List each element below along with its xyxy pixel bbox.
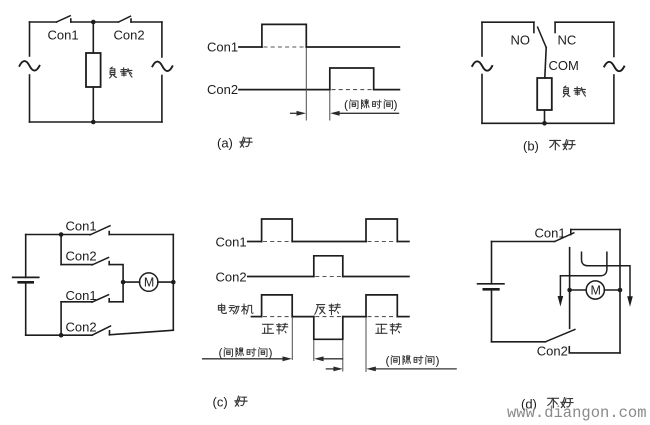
arrowhead left dim1 — [314, 356, 324, 361]
wire COM to resistor — [545, 48, 546, 79]
extension line at Con1 fall — [305, 48, 307, 121]
text 不好 not-good (b) — [550, 140, 561, 150]
wire center branch lower — [92, 87, 94, 122]
Con1 baseline right — [306, 46, 399, 48]
dashed baseline under Con1 pulse1 — [263, 241, 292, 243]
switch Con2 lever — [119, 16, 131, 22]
wire top — [492, 241, 555, 243]
svg-text:COM: COM — [549, 58, 579, 73]
wire row2 left — [61, 264, 92, 266]
node motor right — [171, 280, 176, 285]
wire right vertical — [172, 235, 174, 331]
motor baseline seg3 — [343, 316, 366, 318]
wire row3 right — [109, 301, 123, 303]
Con1 trace baseline left — [239, 46, 262, 48]
AC source left — [472, 61, 492, 70]
switch Con2 bottom lever — [92, 326, 111, 335]
motor pulse up 1 — [262, 295, 293, 317]
wire top right segment — [131, 21, 162, 23]
switch Con1 top tick — [108, 232, 110, 235]
text 间隙时间 gap-time (a) — [350, 100, 358, 109]
dashed baseline under Con2 pulse — [332, 89, 374, 91]
motor trace baseline seg1 — [252, 316, 262, 318]
node row1 left — [59, 232, 64, 237]
svg-text:(: ( — [344, 98, 348, 112]
svg-text:(c): (c) — [213, 394, 228, 409]
switch Con2 fixed contact bracket — [569, 347, 620, 353]
switch Con1 top lever — [90, 226, 110, 235]
NC terminal tick — [554, 22, 556, 32]
extension line at Con2 rise — [329, 90, 331, 120]
dashed motor baseline under pulse2 — [368, 316, 398, 318]
wire row3 left stub down — [60, 302, 62, 335]
svg-text:): ) — [394, 98, 398, 112]
text 好 good (a) — [240, 137, 252, 147]
svg-text:): ) — [436, 353, 440, 367]
AC source left — [20, 61, 40, 70]
wire motor node to motor — [123, 281, 139, 283]
wire right vertical — [619, 230, 621, 353]
text 正转 forward 2 (c) — [376, 324, 387, 333]
svg-text:Con1: Con1 — [66, 219, 97, 234]
switch Con1 lever — [555, 233, 574, 242]
text 不好 not-good (d) — [548, 398, 559, 408]
wire row2 right to corner — [109, 265, 123, 283]
wire row3 left — [61, 301, 92, 303]
arrowhead right dim1 — [283, 356, 293, 361]
motor M circle — [140, 273, 158, 291]
wire bottom — [492, 341, 546, 343]
switch Con2 row2 tick — [108, 262, 110, 265]
resistor 负载 (load) — [537, 78, 552, 110]
Con2 trace baseline left — [239, 89, 330, 91]
arrowhead left dim2 — [366, 367, 376, 372]
dimension 2 line left — [326, 368, 335, 370]
battery short plate — [484, 288, 499, 291]
switch lever NO-COM — [538, 27, 547, 47]
wire left vertical upper — [29, 22, 31, 56]
wire right vertical lower — [161, 76, 163, 123]
Con2 baseline right — [374, 89, 400, 91]
wire left vertical lower — [29, 75, 31, 122]
svg-text:Con2: Con2 — [66, 320, 97, 335]
wire bottom — [482, 122, 614, 124]
extension line at reverse end — [342, 340, 344, 372]
wire top row left — [26, 234, 91, 236]
wire resistor to bottom — [544, 110, 546, 123]
wire top left to NO — [482, 21, 534, 23]
Con2 trace baseline left — [248, 276, 314, 278]
wire bottom diagonal to right — [110, 330, 174, 335]
text 电动机 motor (c) — [218, 304, 226, 314]
wire center branch upper — [92, 22, 94, 53]
svg-text:): ) — [269, 346, 273, 360]
wire top NC to right — [555, 21, 614, 23]
extension line at pulse2 rise — [365, 317, 367, 372]
resistor 负载 (load) — [86, 53, 101, 87]
svg-text:M: M — [144, 276, 154, 290]
dashed baseline under Con2 pulse — [315, 276, 342, 278]
wire left vertical lower — [491, 289, 493, 342]
wire left vertical lower — [481, 75, 483, 124]
wire right vertical upper — [161, 22, 163, 57]
wire left vertical upper — [481, 22, 483, 56]
node motor right — [618, 288, 623, 293]
node bottom center — [91, 120, 96, 125]
AC source right — [604, 62, 624, 71]
wire motor left — [570, 289, 587, 291]
switch Con2 row2 lever — [92, 258, 108, 265]
wire left vertical upper — [25, 235, 27, 278]
svg-text:Con2: Con2 — [114, 28, 145, 43]
Con1 trace baseline left — [248, 241, 262, 243]
wire bottom — [30, 121, 162, 123]
wire top left segment — [30, 21, 57, 23]
current path hook left — [560, 252, 607, 297]
arrowhead right at Con1 fall — [297, 111, 307, 116]
svg-text:Con1: Con1 — [207, 40, 238, 55]
extension line at motor fall 1 — [291, 317, 293, 360]
motor baseline seg2 — [292, 316, 314, 318]
arrowhead left at Con2 rise — [330, 111, 340, 116]
AC source right — [152, 62, 172, 71]
Con2 pulse — [330, 68, 374, 90]
dashed motor baseline over reverse pulse — [315, 316, 342, 318]
wire top right segment — [571, 229, 620, 231]
dimension line right of gap — [339, 112, 399, 114]
switch Con2 fixed contact tick — [130, 19, 132, 22]
svg-text:M: M — [591, 284, 601, 298]
Con1 pulse 1 — [262, 219, 293, 242]
text 间隙时间 gap-time (c2) — [391, 355, 399, 364]
switch Con2 lever — [545, 330, 575, 342]
Con2 baseline right — [343, 276, 409, 278]
svg-text:NC: NC — [558, 33, 577, 48]
Con1 pulse 2 — [366, 219, 397, 242]
wire riser above motor-left node — [569, 248, 571, 290]
Con1 baseline right — [397, 241, 409, 243]
wire top middle segment — [71, 21, 119, 23]
wire bottom left — [26, 334, 92, 336]
battery long plate — [13, 276, 39, 278]
svg-text:NO: NO — [511, 33, 531, 48]
wire row3 corner to motor node — [122, 282, 124, 302]
dashed baseline under Con1 pulse2 — [368, 241, 398, 243]
switch Con1 fixed contact tick — [570, 230, 572, 235]
dimension 2 line right — [375, 368, 457, 370]
wire riser below motor-left node — [569, 290, 571, 328]
svg-text:www.diangon.com: www.diangon.com — [507, 404, 647, 422]
wire right vertical upper — [613, 22, 615, 56]
switch Con1 row3 lever — [92, 295, 108, 302]
text 负载 load (a) — [110, 67, 117, 78]
wire motor right — [604, 289, 620, 291]
arrowhead down left — [558, 296, 564, 307]
svg-text:(b): (b) — [523, 139, 539, 154]
wire stub row1 to row2 — [60, 235, 62, 265]
svg-text:Con1: Con1 — [535, 226, 566, 241]
dimension 1 line right — [323, 358, 343, 360]
svg-text:Con1: Con1 — [48, 28, 79, 43]
node bottom center — [542, 121, 547, 126]
node bottom left — [59, 333, 64, 338]
text 反转 reverse (c) — [315, 305, 325, 315]
text 好 good (c) — [235, 396, 247, 406]
Con1 baseline middle — [292, 241, 366, 243]
battery short plate — [19, 281, 33, 284]
svg-text:(: ( — [219, 346, 223, 360]
svg-text:Con1: Con1 — [216, 234, 247, 249]
motor baseline seg4 — [397, 316, 409, 318]
NO terminal tick — [533, 22, 535, 32]
svg-text:Con2: Con2 — [207, 82, 238, 97]
dashed motor baseline under pulse1 — [263, 316, 292, 318]
wire motor to right node — [158, 281, 173, 283]
Con1 pulse — [262, 24, 306, 47]
arrowhead down right — [627, 296, 633, 307]
svg-text:Con2: Con2 — [537, 344, 568, 359]
node motor left — [567, 288, 572, 293]
Con2 pulse — [314, 256, 343, 277]
switch Con2 bottom tick — [109, 331, 111, 335]
wire left vertical lower — [25, 282, 27, 335]
dimension 1 line left — [202, 358, 283, 360]
motor pulse up 2 — [366, 295, 397, 317]
switch Con1 lever — [56, 16, 70, 22]
node top center — [91, 20, 96, 25]
svg-text:Con2: Con2 — [216, 269, 247, 284]
text 正转 forward 1 (c) — [262, 324, 273, 333]
dashed baseline under Con1 pulse — [264, 46, 307, 48]
svg-text:Con1: Con1 — [66, 288, 97, 303]
motor pulse down (reverse) — [314, 317, 343, 340]
switch Con1 row3 tick — [108, 299, 110, 302]
arrowhead right dim2 — [333, 367, 343, 372]
extension line at reverse start — [313, 340, 315, 361]
svg-text:(a): (a) — [217, 136, 233, 151]
svg-text:Con2: Con2 — [66, 249, 97, 264]
text 间隙时间 gap-time (c1) — [224, 348, 232, 357]
wire left vertical upper — [491, 242, 493, 284]
wire right vertical lower — [613, 75, 615, 123]
wire top row right — [109, 234, 173, 236]
battery long plate — [478, 283, 504, 285]
node motor left — [121, 280, 126, 285]
dimension line left of gap — [290, 112, 297, 114]
switch Con1 fixed contact tick — [70, 19, 72, 22]
svg-text:(: ( — [386, 353, 390, 367]
motor M circle — [586, 281, 604, 299]
current path hook right — [582, 252, 631, 297]
text 负载 load (b) — [563, 86, 570, 97]
